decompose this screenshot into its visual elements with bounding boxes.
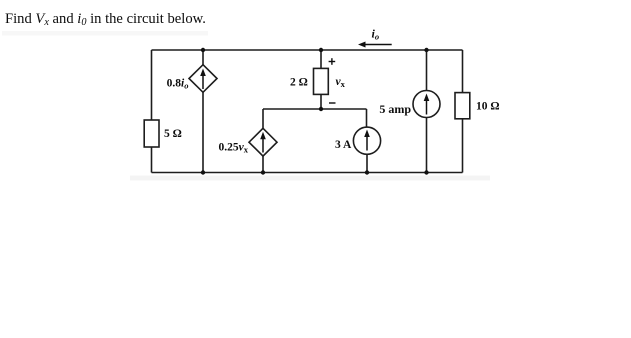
svg-text:3 A: 3 A bbox=[335, 139, 352, 151]
svg-text:5 amp: 5 amp bbox=[379, 102, 411, 116]
svg-text:2 Ω: 2 Ω bbox=[290, 76, 308, 88]
svg-text:0.8io: 0.8io bbox=[167, 78, 189, 91]
svg-text:0.25vx: 0.25vx bbox=[219, 142, 249, 155]
svg-text:io: io bbox=[372, 27, 380, 42]
svg-text:5 Ω: 5 Ω bbox=[164, 128, 182, 140]
svg-text:vx: vx bbox=[336, 76, 346, 89]
svg-text:10 Ω: 10 Ω bbox=[476, 101, 500, 113]
